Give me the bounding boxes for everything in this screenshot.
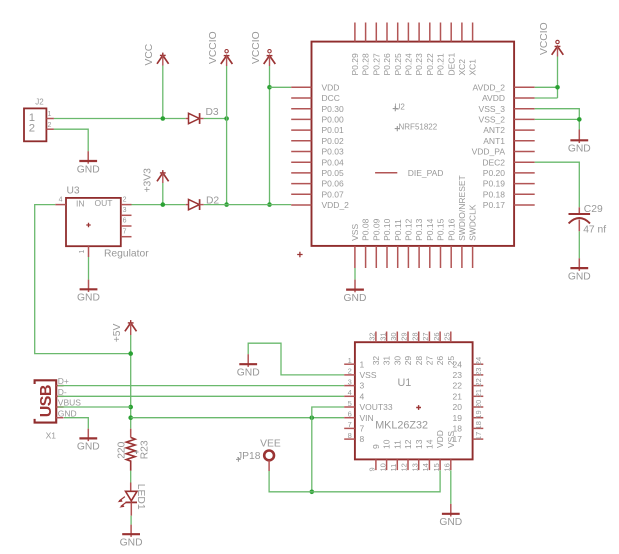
svg-text:P0.14: P0.14 bbox=[425, 218, 435, 240]
U1 left pin names bbox=[360, 359, 393, 444]
svg-text:23: 23 bbox=[474, 368, 483, 376]
U1 bottom pin numbers bbox=[368, 463, 452, 471]
U2 origin cross bbox=[297, 252, 302, 257]
svg-text:VDD: VDD bbox=[322, 82, 340, 92]
svg-text:1: 1 bbox=[360, 359, 365, 369]
junction +5V / U3.IN feed bbox=[128, 351, 133, 356]
svg-text:3: 3 bbox=[348, 377, 352, 386]
U2 bottom pin stubs bbox=[355, 246, 473, 268]
svg-text:P0.13: P0.13 bbox=[414, 218, 424, 240]
svg-text:GND: GND bbox=[568, 271, 591, 282]
svg-text:11: 11 bbox=[389, 464, 398, 472]
svg-text:D-: D- bbox=[58, 387, 67, 397]
svg-text:AVDD: AVDD bbox=[482, 93, 505, 103]
svg-text:J2: J2 bbox=[35, 98, 44, 107]
wire D3 cathode to VCCIO drop bbox=[204, 118, 227, 120]
svg-text:10: 10 bbox=[382, 439, 392, 449]
wire +5V vertical bbox=[130, 335, 132, 429]
ground below LED1 bbox=[120, 525, 143, 549]
svg-text:P0.12: P0.12 bbox=[404, 218, 414, 240]
svg-text:23: 23 bbox=[453, 370, 463, 380]
svg-text:AVDD_2: AVDD_2 bbox=[473, 82, 506, 92]
U2 DIE_PAD pin bbox=[375, 168, 443, 178]
svg-text:P0.10: P0.10 bbox=[382, 218, 392, 240]
svg-text:P0.00: P0.00 bbox=[322, 115, 344, 125]
svg-text:P0.25: P0.25 bbox=[393, 53, 403, 75]
svg-text:P0.20: P0.20 bbox=[483, 168, 505, 178]
svg-text:28: 28 bbox=[414, 356, 424, 366]
svg-text:18: 18 bbox=[474, 421, 483, 429]
wire VDD row to U2.VDD bbox=[270, 86, 292, 88]
svg-text:29: 29 bbox=[403, 356, 413, 366]
svg-text:XC1: XC1 bbox=[468, 59, 478, 76]
junction +5V / VBUS bbox=[128, 405, 133, 410]
U1 name label bbox=[398, 377, 412, 389]
svg-text:ANT1: ANT1 bbox=[483, 136, 505, 146]
svg-text:VDD_2: VDD_2 bbox=[322, 200, 350, 210]
ground left of U1 bbox=[237, 354, 260, 378]
svg-text:JP18: JP18 bbox=[237, 451, 261, 462]
svg-text:9: 9 bbox=[368, 467, 377, 471]
wire U3.IN feed bbox=[35, 205, 131, 354]
U1 value label MKL26Z32 bbox=[375, 420, 428, 432]
wire VSS_2 row bbox=[535, 118, 580, 120]
svg-text:IN: IN bbox=[76, 199, 85, 209]
svg-text:P0.03: P0.03 bbox=[322, 147, 344, 157]
svg-text:VDD_PA: VDD_PA bbox=[472, 147, 506, 157]
wire VCCIO2 vertical bbox=[269, 66, 271, 205]
U2 top pin stubs bbox=[355, 23, 473, 42]
svg-text:GND: GND bbox=[237, 368, 260, 379]
svg-text:22: 22 bbox=[453, 381, 463, 391]
svg-text:3: 3 bbox=[360, 381, 365, 391]
junction VSS_2 / VSS_3 bbox=[577, 117, 582, 122]
svg-text:8: 8 bbox=[348, 431, 352, 440]
svg-text:C29: C29 bbox=[584, 204, 603, 215]
svg-text:P0.29: P0.29 bbox=[350, 53, 360, 75]
U2 left pin names bbox=[322, 82, 350, 210]
svg-text:27: 27 bbox=[425, 356, 435, 366]
svg-text:P0.04: P0.04 bbox=[322, 157, 344, 167]
wire DEC2 to C29 bbox=[535, 162, 580, 207]
svg-text:GND: GND bbox=[77, 442, 100, 453]
U2 value label NRF51822 bbox=[395, 123, 438, 132]
svg-text:GND: GND bbox=[58, 408, 77, 418]
svg-text:6: 6 bbox=[123, 218, 127, 225]
svg-text:SWDIO/NRESET: SWDIO/NRESET bbox=[457, 175, 467, 241]
U2 right pin stubs bbox=[514, 87, 535, 205]
svg-text:MKL26Z32: MKL26Z32 bbox=[375, 420, 428, 432]
svg-text:VBUS: VBUS bbox=[58, 398, 81, 408]
svg-text:DEC1: DEC1 bbox=[446, 53, 456, 76]
wire VCCIO1 lead bbox=[226, 56, 228, 66]
svg-text:29: 29 bbox=[400, 332, 409, 340]
svg-text:8: 8 bbox=[360, 434, 365, 444]
svg-text:13: 13 bbox=[414, 439, 424, 449]
wire +5V lead bbox=[130, 323, 132, 335]
junction +3V3 / U3.OUT / D2 bbox=[161, 202, 166, 207]
svg-text:P0.17: P0.17 bbox=[483, 200, 505, 210]
svg-text:2: 2 bbox=[48, 122, 52, 129]
wire VCC to net bbox=[162, 66, 164, 119]
svg-text:GND: GND bbox=[439, 517, 462, 528]
svg-text:1: 1 bbox=[79, 250, 86, 254]
svg-text:X1: X1 bbox=[46, 431, 57, 441]
svg-text:VEE: VEE bbox=[260, 438, 281, 449]
svg-text:1: 1 bbox=[348, 356, 352, 365]
svg-text:16: 16 bbox=[443, 463, 452, 471]
svg-text:11: 11 bbox=[392, 440, 402, 449]
svg-text:Regulator: Regulator bbox=[104, 248, 149, 259]
wire D2 cathode to U2.VDD_2 bbox=[204, 204, 292, 206]
U2 name label bbox=[393, 102, 406, 111]
U2 bottom pin names bbox=[350, 175, 478, 241]
svg-text:15: 15 bbox=[432, 463, 441, 471]
svg-text:32: 32 bbox=[371, 356, 381, 366]
svg-text:25: 25 bbox=[446, 356, 456, 366]
power symbol VCCIO 1 bbox=[208, 31, 232, 64]
svg-text:10: 10 bbox=[378, 463, 387, 471]
svg-text:DCC: DCC bbox=[322, 93, 340, 103]
wire VCCIO to AVDD_2 and AVDD bbox=[535, 57, 558, 99]
svg-text:2: 2 bbox=[123, 196, 127, 203]
svg-text:GND: GND bbox=[568, 144, 591, 155]
svg-text:GND: GND bbox=[344, 293, 367, 304]
wire C29 to gnd bbox=[578, 231, 580, 258]
svg-text:LED1: LED1 bbox=[135, 484, 146, 510]
svg-text:VSS_2: VSS_2 bbox=[479, 115, 506, 125]
wire VSS_3 to VSS vertical bbox=[535, 109, 580, 130]
svg-text:P0.26: P0.26 bbox=[382, 53, 392, 75]
U1 top pin stubs bbox=[376, 332, 451, 343]
svg-text:1: 1 bbox=[48, 111, 52, 118]
svg-text:P0.02: P0.02 bbox=[322, 136, 344, 146]
wire VCCIO2 lead bbox=[269, 56, 271, 66]
wire LED1 to gnd bbox=[130, 516, 132, 525]
svg-text:P0.22: P0.22 bbox=[425, 53, 435, 75]
U1 right pin stubs bbox=[473, 364, 484, 439]
svg-text:12: 12 bbox=[400, 463, 409, 471]
wire +3V3 lead bbox=[162, 173, 164, 183]
diode D3 bbox=[186, 107, 219, 124]
ground right of U2 (VSS_2) bbox=[568, 130, 591, 155]
wire D+ to U1 pin3 bbox=[58, 385, 344, 387]
wire U3.OUT to D2 bbox=[132, 204, 186, 206]
wire VCCIO right lead bbox=[557, 46, 559, 56]
svg-text:VSS_3: VSS_3 bbox=[479, 104, 506, 114]
svg-text:NRF51822: NRF51822 bbox=[399, 123, 438, 132]
svg-text:7: 7 bbox=[348, 420, 352, 429]
svg-text:20: 20 bbox=[453, 402, 463, 412]
svg-text:D+: D+ bbox=[58, 376, 69, 386]
diode D2 bbox=[186, 196, 220, 210]
svg-text:P0.07: P0.07 bbox=[322, 189, 344, 199]
IC U2 nRF51822 body bbox=[312, 42, 515, 246]
power symbol VCC bbox=[144, 43, 168, 65]
junction VIN row / VOUT33 branch bbox=[310, 415, 315, 420]
ground below USB bbox=[77, 429, 100, 453]
svg-text:VIN: VIN bbox=[360, 413, 374, 423]
U2 top pin names bbox=[350, 53, 478, 76]
svg-text:+3V3: +3V3 bbox=[143, 168, 154, 193]
svg-text:27: 27 bbox=[421, 332, 430, 340]
ground below U2 VSS bbox=[344, 280, 367, 304]
svg-text:P0.28: P0.28 bbox=[361, 53, 371, 75]
svg-text:VSS: VSS bbox=[360, 370, 377, 380]
svg-text:GND: GND bbox=[120, 538, 143, 549]
svg-text:VSS: VSS bbox=[446, 431, 456, 448]
svg-text:30: 30 bbox=[389, 332, 398, 340]
svg-text:VOUT33: VOUT33 bbox=[360, 402, 393, 412]
svg-text:25: 25 bbox=[443, 332, 452, 340]
U1 bottom pin names bbox=[371, 430, 456, 449]
svg-text:P0.24: P0.24 bbox=[404, 53, 414, 75]
svg-text:12: 12 bbox=[403, 439, 413, 449]
svg-text:6: 6 bbox=[348, 410, 352, 419]
svg-text:P0.05: P0.05 bbox=[322, 168, 344, 178]
wire +3V3 to net bbox=[162, 183, 164, 205]
junction VCCIO1 / VDD_2 net bbox=[224, 202, 229, 207]
ground below U1 pin16 bbox=[439, 504, 462, 528]
svg-text:26: 26 bbox=[432, 332, 441, 340]
junction VCCIO2 / VDD row bbox=[267, 85, 272, 90]
svg-text:U1: U1 bbox=[398, 377, 412, 389]
svg-text:DEC2: DEC2 bbox=[482, 157, 505, 167]
svg-text:P0.09: P0.09 bbox=[371, 218, 381, 240]
wire U2.VSS to gnd bbox=[354, 268, 356, 280]
ground below C29 bbox=[568, 258, 591, 282]
svg-text:P0.15: P0.15 bbox=[436, 218, 446, 240]
LED LED1 bbox=[118, 483, 146, 516]
svg-text:VCCIO: VCCIO bbox=[208, 31, 219, 64]
svg-text:VSS: VSS bbox=[350, 224, 360, 241]
wire VCCIO1 vertical to VDD_2 net bbox=[226, 66, 228, 205]
wire USB GND pin bbox=[64, 418, 88, 429]
junction VCCIO2 / VDD_2 row bbox=[267, 202, 272, 207]
svg-text:U2: U2 bbox=[395, 102, 406, 111]
svg-text:P0.19: P0.19 bbox=[483, 179, 505, 189]
svg-text:P0.11: P0.11 bbox=[393, 219, 403, 241]
power symbol VCCIO 2 bbox=[251, 31, 275, 64]
resistor R23 bbox=[116, 429, 150, 471]
svg-text:14: 14 bbox=[421, 463, 430, 471]
wire U1 pin16 to gnd bbox=[450, 470, 452, 504]
junction AVDD_2 / VCCIO bbox=[555, 85, 560, 90]
U1 left pin stubs bbox=[344, 364, 355, 439]
U1 origin cross bbox=[416, 405, 421, 410]
svg-text:31: 31 bbox=[378, 332, 387, 340]
svg-text:P0.06: P0.06 bbox=[322, 179, 344, 189]
junction +5V / VIN row bbox=[128, 415, 133, 420]
svg-text:VCCIO: VCCIO bbox=[539, 22, 550, 55]
svg-text:DIE_PAD: DIE_PAD bbox=[408, 168, 444, 178]
svg-text:VCCIO: VCCIO bbox=[251, 31, 262, 64]
svg-text:2: 2 bbox=[29, 123, 35, 135]
wire U3 pin1 to gnd bbox=[88, 257, 90, 280]
svg-text:14: 14 bbox=[425, 439, 435, 449]
U1 left pin numbers bbox=[348, 356, 352, 440]
svg-text:P0.30: P0.30 bbox=[322, 104, 344, 114]
svg-text:P0.27: P0.27 bbox=[371, 53, 381, 75]
svg-text:21: 21 bbox=[453, 391, 463, 401]
wire VOUT33 branch bbox=[312, 407, 344, 492]
svg-text:VDD: VDD bbox=[435, 430, 445, 448]
svg-text:P0.01: P0.01 bbox=[322, 125, 344, 135]
junction D3 out / VCCIO1 bbox=[224, 116, 229, 121]
svg-text:4: 4 bbox=[59, 196, 63, 203]
svg-text:32: 32 bbox=[368, 332, 377, 340]
svg-text:30: 30 bbox=[392, 356, 402, 366]
wire VCC lead bbox=[162, 55, 164, 65]
U1 top pin numbers bbox=[368, 332, 452, 340]
svg-text:47 nf: 47 nf bbox=[583, 225, 606, 236]
power symbol VCCIO right bbox=[539, 22, 563, 55]
IC U1 MKL26Z32 body bbox=[355, 342, 473, 459]
svg-text:9: 9 bbox=[371, 444, 381, 449]
U2 right pin names bbox=[472, 82, 506, 210]
connector X1 USB bbox=[35, 376, 82, 440]
svg-text:P0.08: P0.08 bbox=[361, 218, 371, 240]
power symbol +5V bbox=[112, 320, 136, 342]
svg-text:U3: U3 bbox=[67, 185, 80, 196]
wire J2 pin1 to D3 anode bbox=[54, 118, 186, 120]
svg-text:GND: GND bbox=[77, 164, 100, 175]
svg-text:4: 4 bbox=[360, 391, 365, 401]
wire VIN row +5V to U1 pin6 bbox=[131, 417, 345, 419]
svg-text:GND: GND bbox=[77, 293, 100, 304]
svg-text:VCC: VCC bbox=[144, 43, 155, 65]
ground below J2 bbox=[77, 151, 100, 175]
U1 bottom pin stubs bbox=[376, 459, 451, 470]
svg-text:7: 7 bbox=[360, 424, 365, 434]
capacitor C29 bbox=[569, 204, 607, 236]
connector J2 bbox=[24, 98, 54, 142]
jumper JP18 VEE bbox=[236, 438, 281, 471]
svg-text:P0.21: P0.21 bbox=[436, 53, 446, 75]
U1 right pin numbers bbox=[474, 357, 483, 440]
svg-text:P0.18: P0.18 bbox=[483, 189, 505, 199]
wire VBUS to +5V bbox=[58, 406, 131, 408]
svg-text:3: 3 bbox=[123, 207, 127, 214]
svg-text:220: 220 bbox=[116, 441, 127, 458]
power symbol +3V3 bbox=[143, 168, 169, 193]
svg-text:31: 31 bbox=[382, 356, 392, 366]
svg-text:OUT: OUT bbox=[95, 198, 113, 208]
svg-text:SWDCLK: SWDCLK bbox=[468, 204, 478, 241]
svg-text:20: 20 bbox=[474, 400, 483, 408]
wire D- to U1 pin4 bbox=[58, 395, 344, 397]
U1 right pin names bbox=[453, 359, 463, 444]
svg-text:4: 4 bbox=[348, 388, 352, 397]
svg-text:ANT2: ANT2 bbox=[483, 125, 505, 135]
svg-text:USB: USB bbox=[38, 385, 55, 417]
svg-text:21: 21 bbox=[474, 389, 483, 397]
svg-text:26: 26 bbox=[435, 356, 445, 366]
svg-text:13: 13 bbox=[410, 463, 419, 471]
svg-text:5: 5 bbox=[348, 399, 352, 408]
wire JP18 to bottom run bbox=[269, 470, 440, 492]
svg-text:17: 17 bbox=[474, 432, 483, 440]
junction VOUT33 branch / bottom run bbox=[310, 490, 315, 495]
svg-text:28: 28 bbox=[410, 332, 419, 340]
ground below U3 bbox=[77, 280, 100, 304]
wire R23 to LED1 bbox=[130, 471, 132, 483]
svg-text:19: 19 bbox=[453, 413, 463, 423]
svg-text:7: 7 bbox=[123, 228, 127, 235]
svg-text:P0.16: P0.16 bbox=[446, 218, 456, 240]
svg-text:P0.23: P0.23 bbox=[414, 53, 424, 75]
U2 left pin stubs bbox=[291, 87, 311, 205]
svg-text:19: 19 bbox=[474, 410, 483, 418]
junction VCC / J2.1 / D3 bbox=[161, 116, 166, 121]
svg-text:+5V: +5V bbox=[112, 324, 123, 343]
U1 top pin names bbox=[371, 356, 456, 366]
regulator U3 bbox=[55, 185, 149, 259]
svg-text:2: 2 bbox=[348, 367, 352, 376]
svg-text:24: 24 bbox=[474, 357, 483, 365]
svg-text:XC2: XC2 bbox=[457, 59, 467, 76]
wire J2 pin2 bbox=[54, 129, 88, 151]
svg-text:D3: D3 bbox=[206, 107, 219, 118]
svg-text:R23: R23 bbox=[139, 440, 150, 459]
svg-text:22: 22 bbox=[474, 378, 483, 386]
wire U1.VSS pin2 to gnd bbox=[248, 343, 344, 375]
